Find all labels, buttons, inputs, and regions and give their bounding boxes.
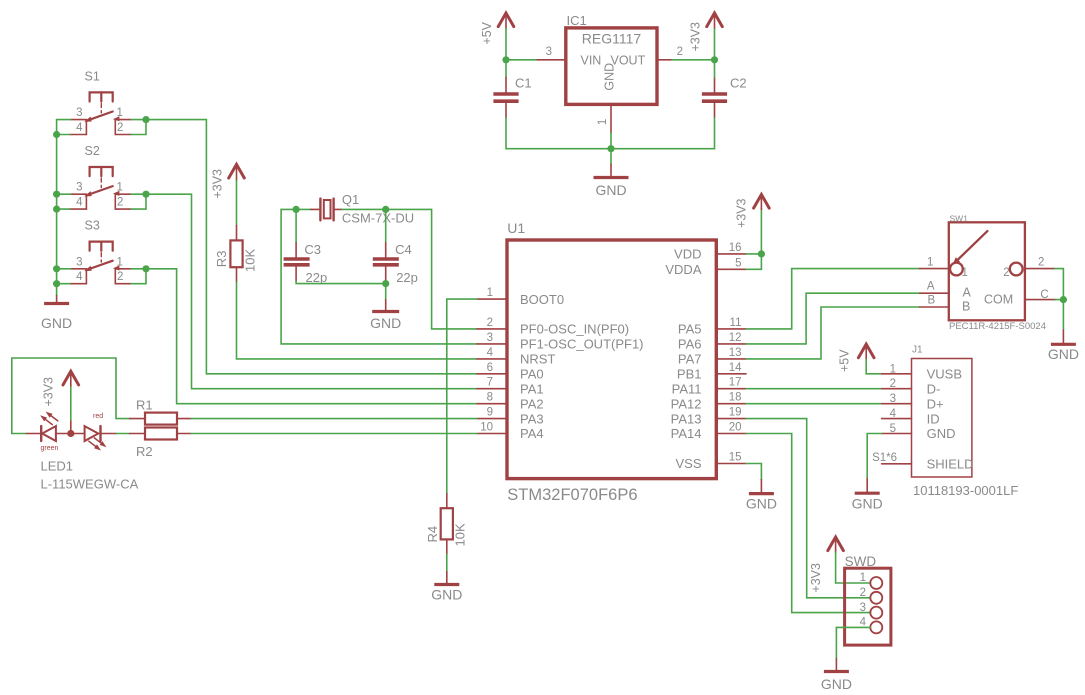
pin SW1.1 stub: [920, 268, 949, 270]
svg-text:4: 4: [76, 197, 83, 209]
node rail junction S3.3: [53, 265, 60, 272]
svg-text:3: 3: [76, 107, 82, 119]
wire net PA5 to SW1.1: [746, 269, 920, 329]
pin U1.8 PA2 stub: [477, 403, 507, 405]
pin U1.2 PF0 stub: [477, 328, 507, 330]
svg-text:S1*6: S1*6: [872, 452, 897, 464]
wire SWD.4 to GND: [836, 627, 870, 658]
svg-text:VIN: VIN: [581, 54, 602, 68]
node crystal left junction: [293, 206, 300, 213]
wire +3V3 to SWD.1: [836, 552, 871, 583]
wire C3 bottom to GND junction: [296, 281, 386, 283]
pin U1.15 VSS stub: [716, 463, 746, 465]
svg-text:11: 11: [730, 317, 742, 329]
supply +5V arrow (J1): [858, 344, 874, 359]
svg-text:2: 2: [1038, 257, 1044, 269]
wire C1 top pin: [505, 60, 507, 78]
ground GND (crystal): [370, 284, 401, 331]
svg-text:5: 5: [735, 257, 741, 269]
pin J1.3 D+ stub: [882, 403, 912, 405]
pin numbers J1: [872, 363, 897, 464]
wire VDD stub to +3V3: [746, 253, 761, 255]
svg-text:R4: R4: [425, 526, 440, 543]
svg-text:GND: GND: [603, 63, 617, 91]
svg-text:+5V: +5V: [480, 21, 494, 44]
wire +3V3 arrow to junction: [714, 29, 716, 60]
wire +3V3 to R3: [236, 181, 238, 226]
wire net PA6 to SW1.A: [746, 293, 920, 344]
wire net PA7 to SW1.B: [746, 307, 920, 359]
pin U1.1 BOOT0 stub: [477, 298, 507, 300]
svg-text:IC1: IC1: [567, 13, 587, 28]
capacitor C1: [493, 77, 518, 117]
pin J1.S1*6 SHIELD stub: [882, 463, 912, 465]
wire S1.2 loop up: [131, 120, 146, 135]
svg-text:B: B: [962, 299, 970, 313]
pin U1.20 PA14 stub: [716, 433, 746, 435]
wire C2 top pin: [714, 60, 716, 78]
wire S1.4 to rail: [57, 134, 70, 136]
svg-text:PA7: PA7: [678, 352, 702, 367]
svg-text:1: 1: [860, 572, 866, 584]
svg-text:+3V3: +3V3: [809, 563, 823, 593]
resistor R4: [441, 494, 453, 555]
wire GND rail (left): [56, 120, 58, 296]
svg-text:B: B: [928, 295, 936, 307]
pin SW1.2 stub: [1025, 268, 1055, 270]
encoder contact circle 2: [1010, 263, 1023, 276]
svg-text:GND: GND: [1048, 346, 1079, 362]
led LED1 green element: [27, 426, 71, 441]
node rail junction S2.4: [53, 206, 60, 213]
supply +3V3 arrow (SWD): [828, 537, 844, 552]
pin U1.17 PA11 stub: [716, 388, 746, 390]
svg-text:PA5: PA5: [678, 322, 702, 337]
svg-text:22p: 22p: [306, 270, 328, 285]
pin U1.4 NRST stub: [477, 358, 507, 360]
ground GND (R4): [431, 572, 462, 603]
supply +3V3 arrow (U1): [754, 195, 770, 210]
svg-text:8: 8: [487, 392, 493, 404]
svg-text:A: A: [963, 286, 972, 300]
pin U1.10 PA4 stub: [477, 433, 507, 435]
wire +5V to J1 VUSB: [866, 360, 882, 374]
node crystal GND junction: [382, 280, 389, 287]
pin names U1 right: [665, 247, 701, 472]
svg-text:GND: GND: [595, 182, 626, 198]
pad SWD.3 circle: [870, 607, 882, 619]
svg-text:GND: GND: [746, 496, 777, 512]
wire +5V junction to IC1 VIN: [506, 59, 537, 61]
svg-text:6: 6: [487, 362, 493, 374]
pin U1.18 PA12 stub: [716, 403, 746, 405]
svg-text:R3: R3: [214, 251, 229, 268]
svg-text:D+: D+: [927, 396, 944, 411]
node S1 output junction: [142, 116, 149, 123]
switch S2: [70, 144, 131, 209]
svg-text:GND: GND: [927, 426, 956, 441]
svg-text:4: 4: [487, 347, 494, 359]
pin IC1.2 VOUT stub: [657, 59, 672, 61]
svg-text:10118193-0001LF: 10118193-0001LF: [913, 483, 1018, 498]
wire +5V arrow to junction: [505, 29, 507, 60]
svg-text:17: 17: [729, 377, 742, 389]
crystal Q1: [311, 199, 342, 221]
wire left junction to Q1 pin: [296, 208, 311, 210]
svg-text:PA0: PA0: [520, 367, 544, 382]
svg-text:3: 3: [76, 182, 82, 194]
encoder lever: [953, 231, 988, 264]
led LED1 red element: [71, 426, 117, 441]
pin names J1: [927, 367, 974, 472]
svg-text:C3: C3: [304, 242, 321, 257]
wire S2.4 to rail: [57, 208, 70, 210]
svg-text:+3V3: +3V3: [211, 169, 225, 199]
wire net R3 to U1 NRST: [237, 282, 478, 359]
svg-text:PA14: PA14: [671, 426, 702, 441]
ground GND (VSS): [746, 480, 777, 512]
svg-text:3: 3: [76, 256, 82, 268]
svg-text:GND: GND: [370, 315, 401, 331]
svg-text:2: 2: [117, 122, 123, 134]
capacitor C4: [373, 243, 399, 282]
svg-text:2: 2: [487, 317, 493, 329]
wire red LED cathode to R2: [116, 433, 129, 435]
ground GND (below IC1): [594, 149, 629, 198]
resistor R1: [130, 413, 192, 425]
svg-text:22p: 22p: [396, 270, 418, 285]
svg-text:9: 9: [487, 407, 493, 419]
pad SWD.2 circle: [870, 592, 882, 604]
wire S2.2 loop up: [131, 194, 146, 209]
svg-text:19: 19: [729, 407, 742, 419]
pin J1.4 ID stub (unconnected): [882, 418, 912, 420]
pin J1.2 D- stub: [882, 388, 912, 390]
pin U1.11 PA5 stub: [716, 328, 746, 330]
svg-text:PA11: PA11: [672, 381, 702, 396]
svg-text:BOOT0: BOOT0: [520, 292, 564, 307]
led red emission arrows: [89, 438, 107, 451]
svg-text:PA3: PA3: [520, 411, 544, 426]
wire net S2 to U1 PA1: [131, 194, 477, 389]
svg-text:1: 1: [597, 119, 609, 125]
node GND rail junction: [607, 145, 614, 152]
wire S1.3 to rail: [57, 119, 71, 121]
svg-text:PA12: PA12: [671, 396, 702, 411]
connector J1 body: [912, 359, 972, 478]
node S3 output junction: [142, 265, 149, 272]
svg-text:5: 5: [890, 423, 896, 435]
svg-text:13: 13: [729, 347, 742, 359]
svg-text:18: 18: [729, 392, 742, 404]
wire net PA13 to SWD.2: [746, 419, 870, 598]
pin SW1.A stub: [920, 292, 949, 294]
wire net PA12 to J1 D+: [746, 403, 882, 405]
node crystal right junction: [382, 206, 389, 213]
svg-text:1: 1: [117, 256, 123, 268]
pin U1.16 VDD stub: [716, 253, 746, 255]
pin U1.12 PA6 stub: [716, 343, 746, 345]
svg-text:1: 1: [927, 257, 933, 269]
resistor R3: [230, 226, 242, 283]
svg-text:10K: 10K: [243, 249, 258, 272]
svg-text:NRST: NRST: [520, 352, 555, 367]
pin SW1.B stub: [920, 306, 949, 308]
pin U1.6 PA0 stub: [477, 373, 507, 375]
svg-text:R2: R2: [136, 444, 153, 459]
encoder SW1 body: [949, 222, 1025, 320]
node VDD junction: [758, 250, 765, 257]
switch S3: [70, 219, 131, 284]
wire S3.4 to rail: [57, 283, 70, 285]
svg-text:2: 2: [890, 378, 896, 390]
svg-text:GND: GND: [41, 315, 72, 331]
wire net S3 to U1 PA2: [131, 269, 477, 404]
pin U1.5 VDDA stub: [716, 268, 746, 270]
wire green LED cathode loop to R1: [12, 358, 130, 434]
svg-text:PA4: PA4: [520, 426, 544, 441]
svg-text:VDD: VDD: [674, 247, 701, 262]
wire Q1 to right junction: [342, 208, 386, 210]
svg-text:GND: GND: [431, 587, 462, 603]
node rail junction S2.3: [53, 191, 60, 198]
resistor R2: [130, 428, 192, 440]
svg-text:COM: COM: [984, 293, 1013, 307]
wire net S1 to U1 PA0: [131, 120, 477, 374]
pin names U1 left: [520, 292, 644, 441]
svg-text:2: 2: [117, 271, 123, 283]
svg-text:3: 3: [890, 393, 896, 405]
wire IC1 VOUT to +3V3 junction: [672, 59, 715, 61]
ground GND (SW1): [1048, 330, 1079, 362]
wire C2 bottom to GND rail: [611, 118, 715, 149]
pin J1.5 GND stub: [882, 433, 912, 435]
svg-text:4: 4: [76, 122, 83, 134]
wire J1 GND pin to ground: [867, 434, 882, 479]
pin SW1.C stub: [1025, 299, 1055, 301]
svg-text:GND: GND: [821, 676, 852, 692]
node rail junction S1.4: [53, 131, 60, 138]
supply +3V3 arrow (R3): [229, 164, 245, 180]
svg-text:3: 3: [487, 332, 493, 344]
header SWD body: [845, 568, 891, 645]
svg-text:VSS: VSS: [675, 456, 701, 471]
wire S2.3 to rail: [57, 193, 71, 195]
wire VSS to GND: [746, 464, 761, 480]
pin U1.3 PF1 stub: [477, 343, 507, 345]
mcu U1 STM32F070F6P6 body: [507, 240, 716, 479]
switch S1: [70, 70, 131, 135]
svg-text:Q1: Q1: [342, 192, 359, 207]
node S2 output junction: [142, 191, 149, 198]
supply +5V arrow (top): [498, 13, 514, 29]
svg-text:CSM-7X-DU: CSM-7X-DU: [342, 211, 414, 226]
wire S3.2 loop up: [131, 269, 146, 284]
svg-text:R1: R1: [136, 398, 153, 413]
wire net BOOT0 to R4: [447, 299, 477, 494]
svg-text:4: 4: [890, 408, 897, 420]
svg-text:PF1-OSC_OUT(PF1): PF1-OSC_OUT(PF1): [520, 337, 644, 352]
svg-text:SWD: SWD: [845, 554, 877, 569]
svg-text:+3V3: +3V3: [689, 22, 703, 52]
node +3V3 junction at C2 top: [711, 56, 718, 63]
svg-text:+3V3: +3V3: [735, 198, 749, 228]
wire IC1 GND pin to rail: [610, 133, 612, 149]
pin J1.1 VUSB stub: [882, 373, 912, 375]
svg-text:PA1: PA1: [520, 381, 544, 396]
pin U1.19 PA13 stub: [716, 418, 746, 420]
svg-text:1: 1: [117, 107, 123, 119]
svg-text:PEC11R-4215F-S0024: PEC11R-4215F-S0024: [949, 321, 1046, 332]
supply +3V3 arrow (LED): [63, 371, 79, 386]
node +5V junction at C1 top: [502, 56, 509, 63]
svg-text:10K: 10K: [453, 523, 468, 546]
wire SW1 C junction to GND: [1062, 300, 1064, 330]
wire R1 to U1 PA3: [191, 418, 477, 420]
svg-text:7: 7: [487, 377, 493, 389]
wire SW1.C to junction: [1055, 299, 1063, 301]
wire C3 top: [295, 209, 297, 242]
wire crystal top rail left + net PF1 down to U1: [281, 209, 477, 344]
op IC1 REG1117 body: [566, 28, 657, 105]
svg-text:C4: C4: [395, 242, 412, 257]
svg-text:PA6: PA6: [678, 337, 702, 352]
wire C4 bottom: [385, 281, 387, 283]
wire +3V3 arrow to VDD junction: [760, 209, 762, 254]
svg-text:PA2: PA2: [520, 396, 544, 411]
svg-text:2: 2: [677, 46, 683, 58]
svg-text:15: 15: [729, 452, 742, 464]
svg-text:VDDA: VDDA: [665, 262, 701, 277]
ground GND (switch rail): [41, 296, 72, 331]
svg-text:S3: S3: [85, 219, 100, 233]
wire S3.3 to rail: [57, 268, 71, 270]
capacitor C3: [284, 243, 310, 282]
node rail junction S3.4: [53, 280, 60, 287]
svg-text:PF0-OSC_IN(PF0): PF0-OSC_IN(PF0): [520, 322, 629, 337]
wire C4 top: [385, 209, 387, 242]
svg-text:C1: C1: [515, 76, 532, 91]
pin IC1.3 VIN stub: [537, 59, 566, 61]
svg-text:S2: S2: [85, 144, 100, 158]
svg-text:2: 2: [860, 587, 866, 599]
pin numbers U1 left: [480, 287, 493, 433]
pad SWD.1 circle: [870, 577, 882, 589]
svg-text:+3V3: +3V3: [42, 377, 56, 407]
pin U1.9 PA3 stub: [477, 418, 507, 420]
ground GND (J1): [852, 479, 883, 512]
svg-text:D-: D-: [927, 381, 941, 396]
wire +3V3 to LED anode: [70, 386, 72, 421]
svg-text:2: 2: [117, 197, 123, 209]
pin numbers U1 right: [729, 242, 742, 464]
pad SWD.4 circle: [870, 621, 882, 633]
svg-text:LED1: LED1: [41, 459, 74, 474]
svg-text:U1: U1: [507, 220, 525, 236]
svg-text:C2: C2: [730, 76, 747, 91]
svg-text:4: 4: [76, 271, 83, 283]
svg-text:green: green: [41, 445, 59, 452]
svg-text:1: 1: [117, 182, 123, 194]
svg-text:red: red: [93, 413, 103, 420]
svg-text:10: 10: [480, 422, 493, 434]
pin U1.7 PA1 stub: [477, 388, 507, 390]
wire net PA11 to J1 D-: [746, 388, 882, 390]
svg-text:1: 1: [890, 363, 896, 375]
wire C1 bottom to GND rail: [506, 118, 611, 149]
svg-text:PB1: PB1: [677, 367, 702, 382]
wire net PA14 to SWD.3: [746, 434, 870, 613]
svg-text:1: 1: [487, 287, 493, 299]
svg-text:16: 16: [729, 242, 742, 254]
pin LED anode up: [70, 420, 72, 434]
wire SW1.2 down to C: [1055, 269, 1064, 300]
svg-text:J1: J1: [912, 345, 923, 356]
svg-text:L-115WEGW-CA: L-115WEGW-CA: [41, 477, 139, 492]
led green emission arrows: [40, 412, 58, 425]
capacitor C2: [702, 77, 727, 117]
svg-text:3: 3: [860, 602, 866, 614]
svg-text:PA13: PA13: [671, 411, 702, 426]
svg-text:C: C: [1040, 289, 1048, 301]
pin IC1.1 GND stub: [610, 104, 612, 133]
encoder contact circle 1: [950, 263, 963, 276]
svg-text:GND: GND: [852, 496, 883, 512]
node LED common anode junction: [67, 430, 74, 437]
svg-text:+5V: +5V: [838, 349, 852, 372]
ground GND (SWD): [821, 659, 852, 693]
svg-text:SHIELD: SHIELD: [927, 457, 974, 472]
svg-text:12: 12: [729, 332, 742, 344]
svg-text:20: 20: [729, 422, 742, 434]
svg-text:REG1117: REG1117: [582, 31, 642, 47]
wire VDDA loop up: [746, 254, 761, 269]
svg-text:A: A: [927, 281, 935, 293]
wire R4 to GND: [446, 554, 448, 571]
pin U1.14 PB1 stub (unconnected): [716, 373, 746, 375]
svg-text:STM32F070F6P6: STM32F070F6P6: [507, 486, 637, 504]
svg-text:S1: S1: [85, 70, 100, 84]
wire R2 to U1 PA4: [191, 433, 477, 435]
svg-text:SW1: SW1: [950, 214, 969, 224]
svg-text:14: 14: [729, 362, 742, 374]
svg-text:VUSB: VUSB: [927, 367, 962, 382]
node SW1 C junction: [1060, 296, 1067, 303]
svg-text:ID: ID: [927, 411, 940, 426]
svg-text:3: 3: [546, 46, 552, 58]
wire net PF0 right junction down to U1: [386, 209, 477, 329]
pin U1.13 PA7 stub: [716, 358, 746, 360]
supply +3V3 arrow (top right): [707, 13, 723, 29]
